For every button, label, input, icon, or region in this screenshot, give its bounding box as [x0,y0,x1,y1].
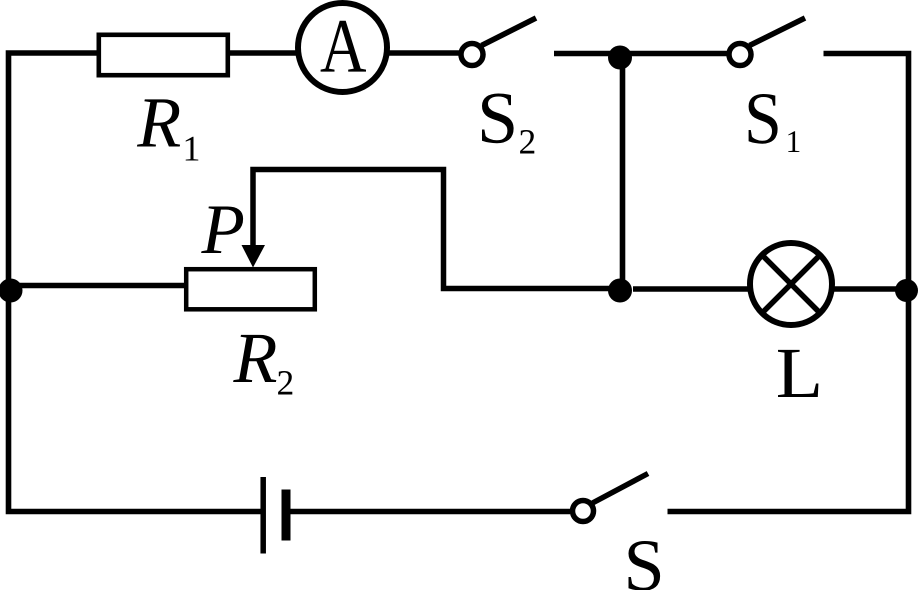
switch S2 [461,18,536,66]
label P [201,207,243,254]
wire left loop: top-left horizontal, left vertical, bottom-left horizontal [9,53,261,512]
ammeter A [298,3,387,92]
wire node top to switch S1 [628,51,727,57]
resistor R1 [99,35,228,75]
node left [0,279,23,303]
wire lamp to node right [834,286,903,292]
wire R1 to ammeter [230,50,297,56]
wire right loop: S1 to top-right corner, right vertical, bottom-right horizontal [668,54,909,512]
node mid junction [608,279,632,303]
node top junction [608,46,632,70]
wiper arm P: shaft, corner, right drop to mid wire [253,170,612,289]
battery short plate (negative) [282,490,291,541]
node right [895,279,918,302]
wire vertical from node top down to node mid [620,55,626,289]
battery long plate (positive) [260,477,266,554]
lamp L [750,243,832,325]
label R1 [137,99,198,160]
label S2 [482,94,534,154]
wire S2 to node top [554,51,612,57]
wire ammeter to switch S2 [389,50,459,56]
wiper arrowhead [242,245,266,268]
label S1 [749,94,800,152]
label A (ammeter face) [321,21,366,72]
rheostat R2 [186,269,315,309]
label R2 [233,335,292,395]
wire battery to switch S [291,509,571,515]
switch S [573,474,649,522]
label S [629,541,661,590]
wire node mid to lamp [633,286,748,292]
switch S1 [729,18,805,66]
wire node left to rheostat R2 [9,283,187,289]
label L [778,350,818,397]
